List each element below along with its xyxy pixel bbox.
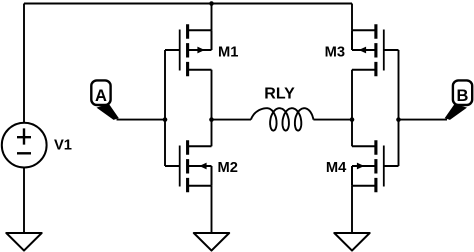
junction dot A / gate line [163,117,168,122]
svg-text:M1: M1 [218,45,238,61]
wire M1-M2 drain rail middle [211,70,213,147]
wire node A horizontal [117,119,166,121]
junction dot M1-M2 midpoint / inductor [209,117,214,122]
wire left rail lower (V1 bottom to ground) [23,167,25,233]
transistor M1 (PMOS) [165,24,212,76]
svg-text:M4: M4 [326,160,347,176]
wire top rail [24,3,352,5]
inductor RLY [212,119,252,121]
wire M2 source to ground [211,186,213,233]
wire M3-M4 rail middle [351,70,353,147]
transistor M4 (NMOS, mirrored) [352,140,399,192]
node A flag [91,80,119,120]
wire M4 source to ground [351,186,353,233]
ground (left) [6,233,41,251]
svg-text:RLY: RLY [264,85,295,102]
wire left rail upper (V1 top to rail) [23,4,25,123]
wire gate line left (A to M1/M2 gates) [164,50,166,166]
svg-text:M3: M3 [325,45,345,61]
transistor M3 (PMOS, mirrored) [352,24,399,76]
junction dot top rail / M1 drain [209,1,214,6]
svg-text:M2: M2 [218,160,238,176]
transistor M2 (NMOS) [165,140,212,192]
junction dot B / gate line [396,117,401,122]
svg-text:V1: V1 [54,138,72,154]
svg-text:A: A [95,87,107,105]
wire gate line right (B to M3/M4 gates) [398,50,400,166]
svg-text:B: B [457,87,469,105]
ground (right) [334,233,369,251]
junction dot M3-M4 midpoint / inductor [350,117,355,122]
node B flag [445,80,472,120]
wire node B horizontal [399,119,448,121]
wire M1 drain rail top [211,4,213,31]
ground (middle) [194,233,229,251]
wire M3 drain rail top [351,4,353,31]
voltage source V1 [2,123,47,168]
